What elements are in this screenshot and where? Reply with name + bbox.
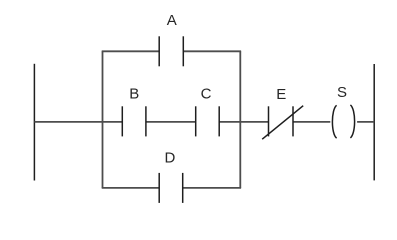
coil S left parenthesis — [332, 105, 336, 138]
contact E (normally closed) — [268, 106, 270, 136]
wire: branch left vertical — [102, 51, 104, 188]
wire: contact B to contact C — [146, 121, 196, 123]
svg-text:B: B — [129, 85, 139, 102]
svg-text:E: E — [276, 86, 286, 103]
coil S right parenthesis — [350, 105, 354, 138]
right power rail — [373, 64, 375, 180]
svg-text:S: S — [337, 84, 347, 101]
wire: top branch left of contact A — [102, 50, 160, 52]
wire: top branch right of contact A — [183, 50, 241, 52]
contact B — [121, 106, 123, 136]
wire: bottom branch left of contact D — [102, 187, 160, 189]
svg-text:D: D — [164, 150, 175, 167]
contact D — [158, 173, 160, 203]
svg-text:A: A — [167, 12, 177, 29]
wire: contact C to contact E — [219, 121, 268, 123]
svg-text:C: C — [201, 86, 212, 103]
contact E slash — [262, 106, 303, 140]
wire: left rail to contact B — [34, 121, 122, 123]
wire: branch right vertical — [239, 51, 241, 188]
contact C — [195, 106, 197, 136]
wire: bottom branch right of contact D — [183, 187, 241, 189]
contact A — [158, 36, 160, 66]
wire: coil S to right rail — [357, 121, 374, 123]
wire: contact E to coil S — [293, 121, 330, 123]
left power rail — [33, 64, 35, 181]
